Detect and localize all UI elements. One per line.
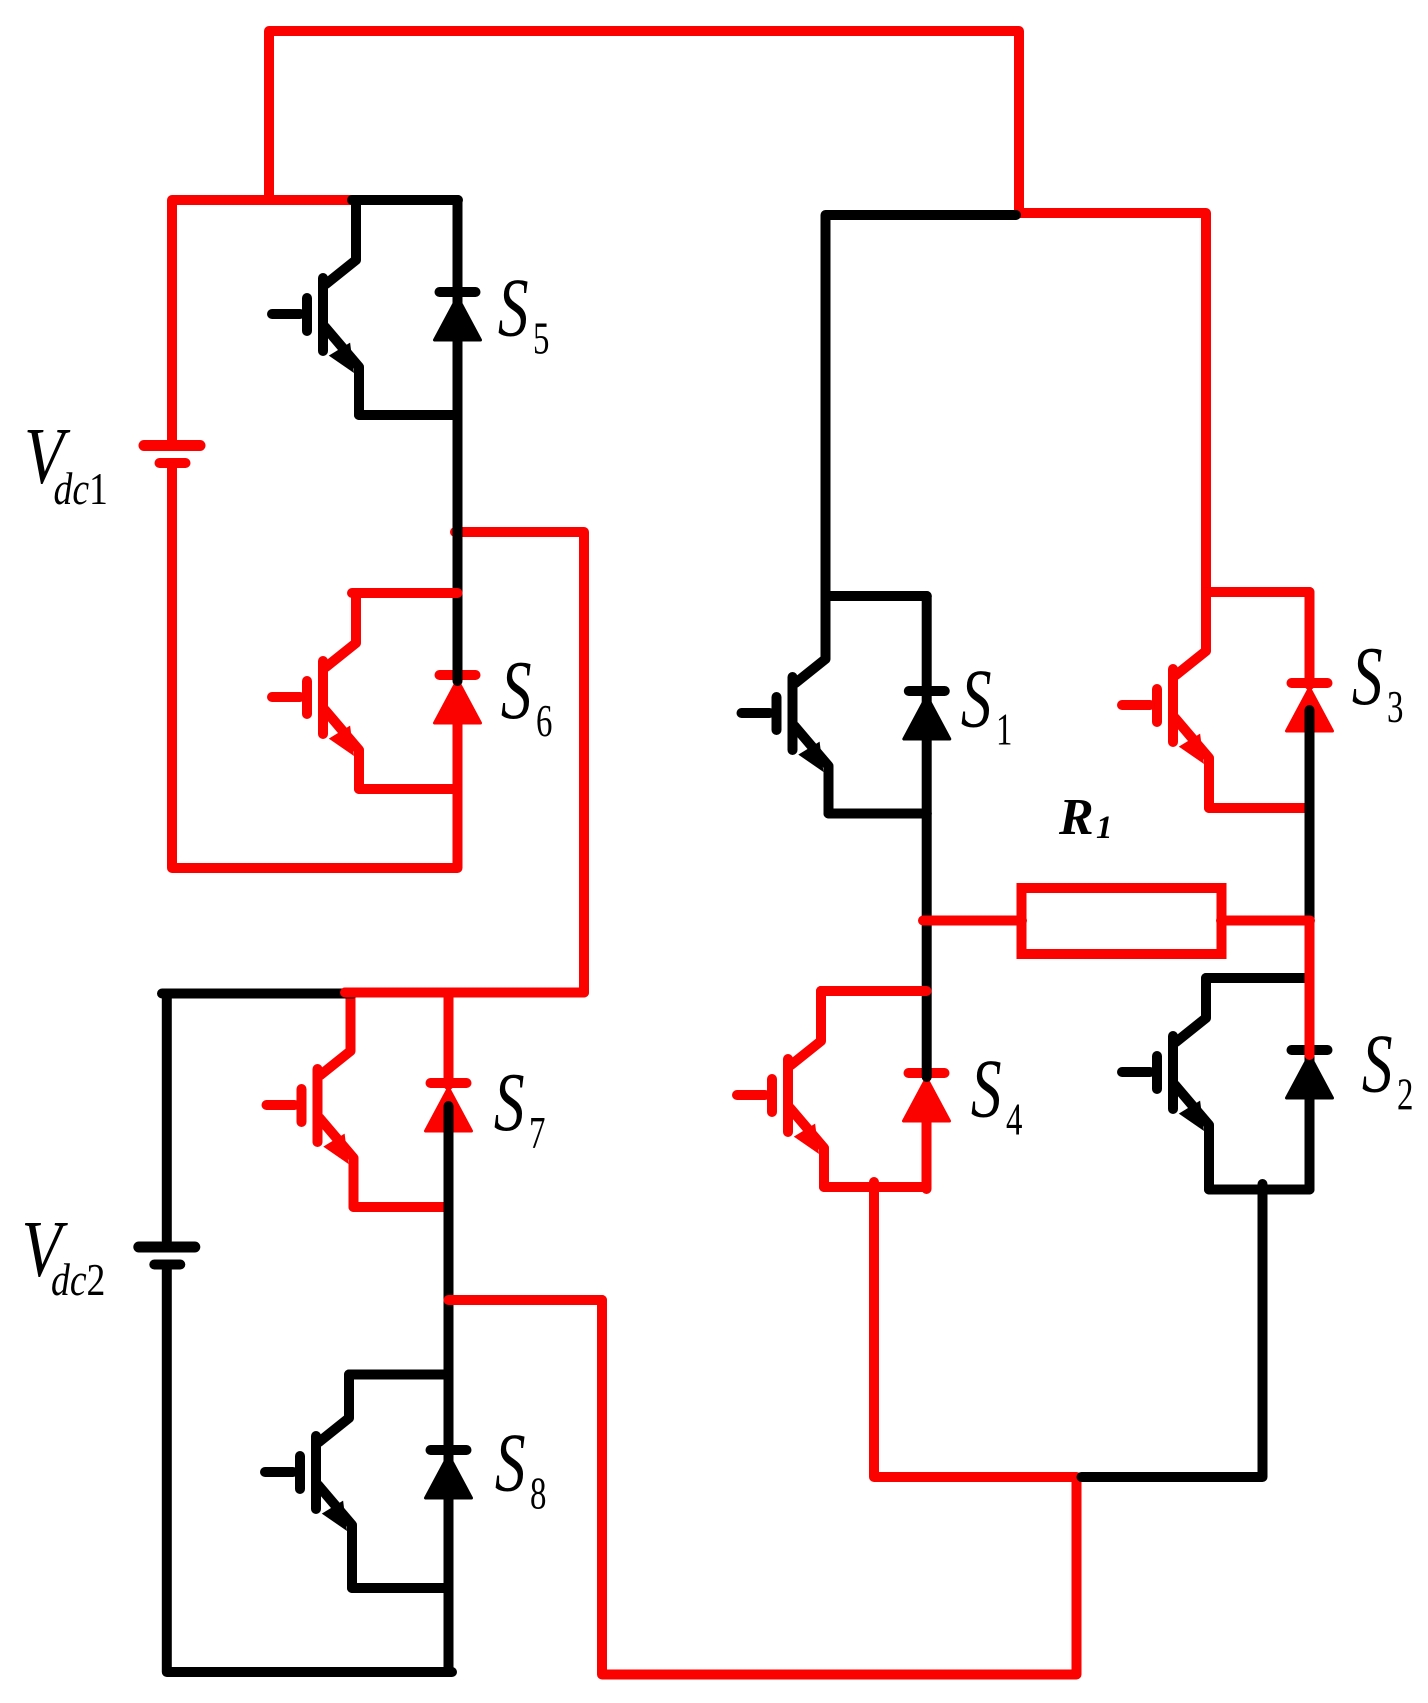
svg-text:S: S [494, 1055, 525, 1149]
svg-text:S: S [495, 1415, 526, 1509]
wire R1 right node down to S2 cathode bar [1305, 921, 1315, 1056]
svg-text:7: 7 [529, 1108, 545, 1158]
wire R1 right lead to S3/S2 node [1221, 916, 1310, 926]
diode of S3 (antiparallel) [1287, 683, 1333, 731]
battery Vdc2 (DC source) [139, 1247, 195, 1265]
wire S3 cathode from top rail [1305, 592, 1315, 685]
svg-text:4: 4 [1006, 1095, 1023, 1145]
wire S7 top rail (over column) [345, 988, 584, 998]
diode of S4 (antiparallel) [904, 1073, 950, 1121]
wire Vdc2- bottom rail to S8 [167, 1269, 452, 1672]
label Vdc2 [21, 1205, 105, 1306]
label S5 [498, 260, 549, 364]
label S1 [961, 651, 1012, 755]
diode of S8 (antiparallel) [426, 1450, 472, 1498]
diode of S1 (antiparallel) [904, 691, 950, 739]
resistor R1 [1022, 888, 1222, 954]
wire S7/S8 junction to load loop (over column) [449, 1295, 603, 1305]
svg-text:S: S [1362, 1016, 1393, 1110]
transistor S8 (IGBT) [265, 1375, 449, 1589]
wire S6 top rail (over column) [352, 588, 458, 598]
transistor S6 (IGBT) [272, 593, 458, 789]
label S3 [1352, 629, 1403, 733]
svg-text:1: 1 [1096, 810, 1113, 846]
svg-text:2: 2 [1397, 1070, 1413, 1120]
transistor S5 (IGBT) [272, 200, 458, 415]
diode of S7 (antiparallel) [426, 1083, 472, 1131]
wire Vdc1- bottom loop to S6 anode [172, 467, 458, 868]
wire Vdc1+ to S5 top rail [172, 200, 352, 440]
diode of S2 (antiparallel) [1287, 1050, 1333, 1190]
transistor S7 (IGBT) [267, 993, 449, 1208]
transistor S1 (IGBT) [742, 596, 927, 814]
wire top red loop: Vdc1+ rail up, across, down to node, right, down to S3 collector [269, 31, 1206, 597]
svg-text:8: 8 [530, 1469, 546, 1519]
diode of S5 (antiparallel) [435, 292, 481, 340]
label S6 [501, 643, 552, 747]
transistor S2 (IGBT) [1122, 978, 1310, 1190]
svg-text:S: S [498, 260, 529, 354]
wire node A: S5/S6 midpoint to S7 top rail [345, 532, 584, 993]
diode of S6 (antiparallel) [435, 675, 481, 723]
svg-text:6: 6 [536, 696, 552, 746]
svg-text:3: 3 [1387, 682, 1403, 732]
wire S5 cathode column down to S6 cathode bar [453, 200, 463, 681]
wire R1 left lead from S1/S4 node [923, 916, 1022, 926]
svg-text:S: S [961, 651, 992, 745]
label S8 [495, 1415, 546, 1519]
svg-text:S: S [501, 643, 532, 737]
wire S5 top rail (black part) [352, 195, 458, 205]
svg-text:dc1: dc1 [53, 465, 107, 515]
wire load loop: S7/S8 junction around bottom up to S4 emitter [449, 1182, 1077, 1675]
battery Vdc1 (DC source) [144, 446, 200, 464]
svg-text:1: 1 [996, 705, 1012, 755]
svg-text:R: R [1058, 789, 1094, 846]
wire S1/S4 column (S1 diode to S4 cathode bar) [922, 596, 932, 1077]
wire S7 cathode from top rail [444, 993, 454, 1086]
label S2 [1362, 1016, 1413, 1120]
label S7 [494, 1055, 545, 1159]
svg-text:5: 5 [533, 314, 549, 364]
wire S7 anode / S8 column to bottom rail [444, 1106, 454, 1672]
wire Vdc2+ top wire [162, 989, 353, 999]
wire S4 diode anode to bottom wire [922, 1116, 932, 1189]
svg-text:S: S [971, 1041, 1002, 1135]
label S4 [971, 1041, 1023, 1145]
transistor S3 (IGBT) [1122, 592, 1310, 808]
transistor S4 (IGBT) [737, 991, 927, 1187]
wire H-bridge left feed down to S1 collector [826, 215, 1017, 601]
wire S3 anode down to R1 right node [1305, 710, 1315, 921]
label Vdc1 [24, 412, 108, 515]
svg-text:S: S [1352, 629, 1383, 723]
wire S4 top rail (over column) [821, 986, 927, 996]
wire Vdc2+ vertical [162, 994, 172, 1242]
svg-text:dc2: dc2 [51, 1256, 105, 1306]
wire S2 emitter down and left to load node [1082, 1184, 1263, 1477]
